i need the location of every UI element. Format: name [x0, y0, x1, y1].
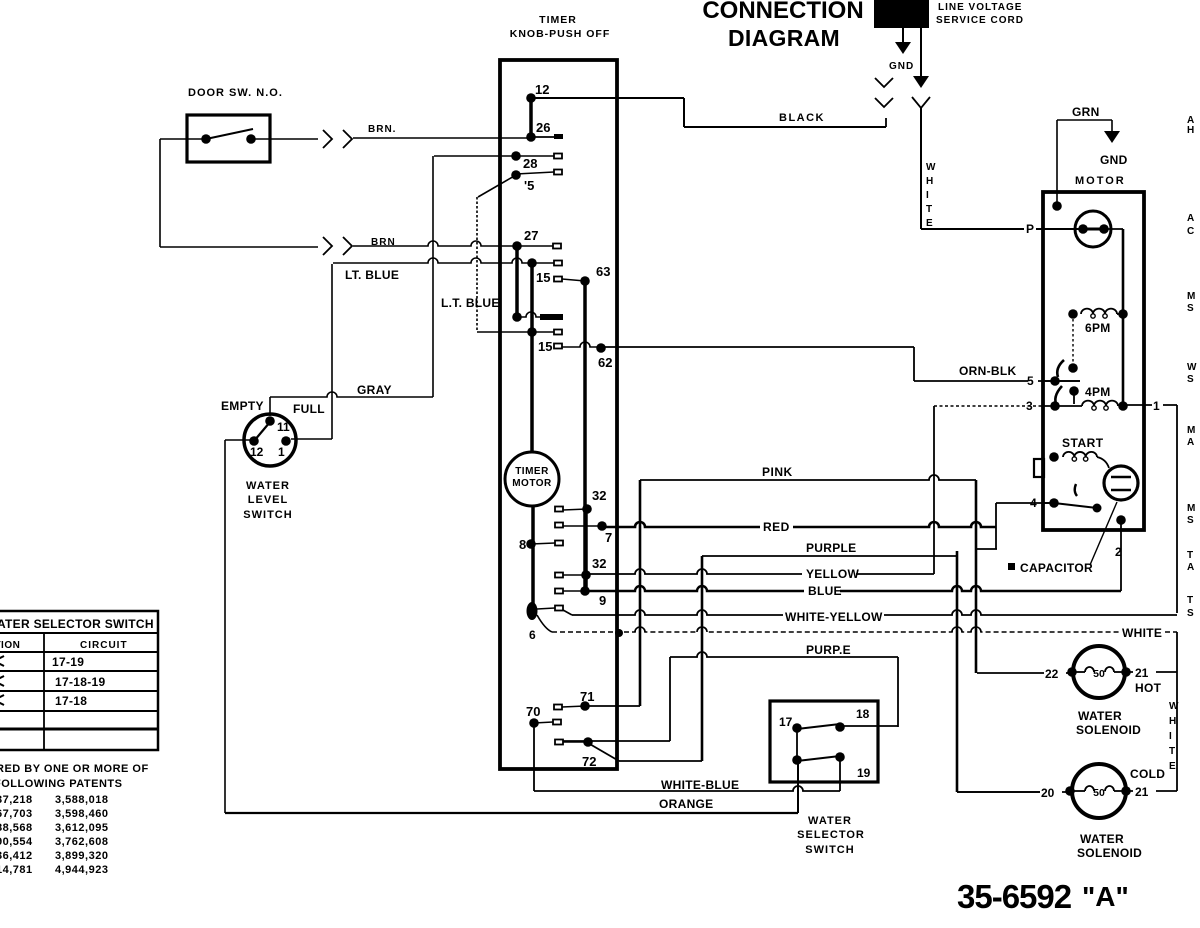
wire WHITE timer 6 to solenoids	[537, 615, 1177, 637]
selector pin 17	[779, 715, 802, 733]
wire PURPLE timer 72 to motor 3	[619, 551, 1041, 792]
svg-text:S: S	[1187, 608, 1194, 619]
label WATER SELECTOR SWITCH	[797, 815, 865, 856]
motor ground terminal	[1052, 201, 1062, 211]
label HOT	[1135, 681, 1162, 695]
timer wire 12-26	[529, 98, 533, 137]
table row3	[0, 694, 87, 708]
svg-text:4,944,923: 4,944,923	[55, 864, 108, 876]
wire WHITE service to motor	[921, 108, 1083, 229]
svg-text:M: M	[1187, 291, 1195, 302]
timer motor circle	[505, 452, 559, 506]
svg-text:H: H	[1169, 716, 1176, 727]
motor pin 2	[1115, 515, 1126, 559]
svg-text:SOLENOID: SOLENOID	[1077, 846, 1142, 860]
label P	[1026, 222, 1034, 236]
label GRAY	[357, 383, 392, 397]
svg-text:HOT: HOT	[1135, 681, 1162, 695]
motor run circle	[1075, 211, 1111, 247]
selector pin 18	[835, 707, 869, 732]
svg-text:37,218: 37,218	[0, 794, 33, 806]
connector chevrons BRN	[323, 130, 352, 148]
svg-text:90,554: 90,554	[0, 836, 33, 848]
selector arm 17-18	[797, 724, 840, 729]
timer pin 8	[519, 537, 563, 552]
label RED	[763, 520, 790, 534]
svg-text:18: 18	[856, 707, 870, 721]
svg-text:3,612,095: 3,612,095	[55, 822, 108, 834]
label WHITE-YELLOW	[785, 610, 883, 624]
svg-text:W: W	[1187, 362, 1197, 373]
svg-text:27: 27	[524, 228, 538, 243]
motor 6PM winding	[1068, 309, 1128, 335]
timer wire lt-blue down	[530, 263, 534, 332]
svg-text:21: 21	[1135, 666, 1149, 680]
timer pin 70	[526, 704, 561, 728]
timer wire 32a-9 column	[584, 509, 588, 592]
svg-text:14,781: 14,781	[0, 864, 33, 876]
svg-text:GRAY: GRAY	[357, 383, 392, 397]
svg-text:ORANGE: ORANGE	[659, 797, 713, 811]
svg-text:50: 50	[1093, 668, 1105, 680]
wire PINK timer 71 to motor 4	[585, 475, 1054, 706]
svg-text:CAPACITOR: CAPACITOR	[1020, 561, 1093, 575]
cord lead white with chevrons	[912, 28, 930, 108]
timer pin 7	[555, 521, 612, 545]
svg-text:26: 26	[536, 120, 550, 135]
timer pin 26	[526, 120, 563, 142]
label COLD	[1130, 767, 1165, 781]
table row2	[0, 675, 105, 689]
svg-text:H: H	[1187, 125, 1194, 136]
label BLUE	[808, 584, 842, 598]
svg-text:50: 50	[1093, 787, 1105, 799]
label ORANGE	[659, 797, 713, 811]
timer pin 32b	[555, 556, 606, 580]
svg-text:2: 2	[1115, 545, 1122, 559]
cord chevrons left	[875, 78, 893, 107]
selector wire 17-17b	[796, 728, 798, 760]
svg-text:MOTOR: MOTOR	[1075, 175, 1126, 187]
svg-text:BLACK: BLACK	[779, 112, 825, 124]
ground arrow GND	[895, 28, 911, 54]
svg-text:3,598,460: 3,598,460	[55, 808, 108, 820]
svg-text:EMPTY: EMPTY	[221, 399, 264, 413]
svg-text:11: 11	[277, 420, 290, 434]
timer pin mid 15	[512, 312, 563, 322]
hot solenoid circle	[1067, 646, 1131, 698]
svg-text:L.T. BLUE: L.T. BLUE	[441, 296, 500, 310]
svg-text:28: 28	[523, 156, 537, 171]
svg-text:15: 15	[536, 270, 550, 285]
timer pin 9	[555, 586, 606, 608]
wire GRAY water level to 28 leg	[270, 392, 433, 416]
drawing number 35-6592 A	[957, 878, 1129, 915]
timer box	[500, 60, 617, 769]
svg-text:72: 72	[582, 754, 596, 769]
svg-text:I: I	[1169, 731, 1172, 742]
capacitor label and leader	[1008, 502, 1117, 575]
svg-text:70: 70	[526, 704, 540, 719]
wire BRN2 door loop to timer 27	[160, 241, 515, 247]
svg-text:LT. BLUE: LT. BLUE	[345, 268, 399, 282]
motor pin 4	[1030, 496, 1059, 510]
svg-text:LINE VOLTAGE: LINE VOLTAGE	[938, 2, 1022, 13]
svg-text:15: 15	[538, 339, 552, 354]
label PURP.E 2	[806, 643, 851, 657]
label 11	[277, 420, 290, 434]
label cold WATER SOLENOID	[1077, 832, 1142, 860]
svg-text:5: 5	[1027, 374, 1034, 388]
label EMPTY	[221, 399, 264, 413]
timer pin row 332	[527, 327, 562, 337]
svg-text:DIAGRAM: DIAGRAM	[728, 25, 840, 51]
wire WHITE-BLUE timer 70 to selector 19	[534, 723, 840, 791]
label 12	[250, 445, 264, 459]
svg-text:3,588,018: 3,588,018	[55, 794, 108, 806]
svg-text:71: 71	[580, 689, 594, 704]
svg-text:YELLOW: YELLOW	[806, 567, 860, 581]
svg-text:SELECTOR: SELECTOR	[797, 829, 865, 841]
svg-text:12: 12	[535, 82, 549, 97]
selector wire 18 out	[840, 725, 898, 727]
svg-text:H: H	[926, 176, 933, 187]
svg-text:"A": "A"	[1082, 881, 1129, 912]
label LT. BLUE 1	[345, 268, 399, 282]
cold solenoid circle	[1065, 764, 1131, 818]
water selector switch box	[770, 701, 878, 782]
timer pin 72	[555, 737, 596, 769]
label BLACK	[779, 112, 825, 124]
wire 62 to motor 5 ORN-BLK	[601, 347, 1080, 381]
svg-text:WHITE-BLUE: WHITE-BLUE	[661, 778, 739, 792]
selector pin 17b	[792, 755, 802, 765]
svg-text:4: 4	[1030, 496, 1037, 510]
svg-text:SOLENOID: SOLENOID	[1076, 723, 1141, 737]
wire timer 28 left leg	[433, 156, 516, 397]
timer pin 71	[554, 689, 594, 711]
label WATER LEVEL SWITCH	[243, 480, 292, 521]
timer wire 15c to 62	[562, 342, 601, 347]
wire GRN motor ground	[1057, 120, 1120, 206]
svg-text:DOOR SW. N.O.: DOOR SW. N.O.	[188, 87, 283, 99]
right edge cut labels	[1187, 115, 1197, 619]
door switch DOOR SW. N.O. label	[188, 87, 283, 99]
svg-text:BRN: BRN	[371, 237, 396, 248]
label GND	[889, 61, 914, 72]
timer pin 6	[527, 602, 564, 642]
svg-text:88,568: 88,568	[0, 822, 33, 834]
svg-text:22: 22	[1045, 667, 1059, 681]
svg-text:32: 32	[592, 556, 606, 571]
svg-text:GND: GND	[889, 61, 914, 72]
svg-text:C: C	[1187, 226, 1194, 237]
wire RED timer 7 to motor 4	[602, 522, 996, 527]
wire LT BLUE timer 15 leg	[477, 175, 532, 332]
svg-text:17-18-19: 17-18-19	[55, 675, 105, 689]
svg-text:63: 63	[596, 264, 610, 279]
label WHITE-BLUE	[661, 778, 739, 792]
svg-text:M: M	[1187, 425, 1195, 436]
svg-text:CONNECTION: CONNECTION	[702, 0, 863, 24]
label FULL	[293, 402, 325, 416]
svg-text:35-6592: 35-6592	[957, 878, 1072, 915]
label WHITE vertical	[926, 162, 936, 229]
timer pin 32a	[555, 488, 606, 514]
svg-text:S: S	[1187, 303, 1194, 314]
svg-text:M: M	[1187, 503, 1195, 514]
svg-text:A: A	[1187, 213, 1194, 224]
table subheader	[0, 640, 128, 651]
wire door switch left loop	[160, 139, 206, 247]
svg-text:WATER: WATER	[808, 815, 852, 827]
svg-text:TIMER: TIMER	[515, 466, 549, 477]
svg-text:FULL: FULL	[293, 402, 325, 416]
water selector switch table grid	[0, 611, 158, 750]
label PINK	[762, 465, 793, 479]
label GND motor	[1100, 153, 1128, 167]
wire WHITE right column	[1176, 632, 1178, 791]
svg-text:19: 19	[857, 766, 871, 780]
label START	[1062, 436, 1104, 450]
svg-text:62: 62	[598, 355, 612, 370]
svg-text:32: 32	[592, 488, 606, 503]
motor start winding	[1049, 452, 1109, 468]
svg-text:COLD: COLD	[1130, 767, 1165, 781]
svg-text:1: 1	[278, 445, 285, 459]
water level switch circle	[244, 414, 296, 466]
timer pin 27	[512, 228, 561, 251]
svg-text:WHITE-YELLOW: WHITE-YELLOW	[785, 610, 883, 624]
svg-text:T: T	[1187, 595, 1193, 606]
selector arm 17b-19	[797, 756, 840, 761]
timer wire 27 down	[515, 246, 519, 317]
wire PURPLE 2 timer 72 to selector 18	[563, 652, 898, 741]
motor pin 1 wire	[1123, 399, 1177, 613]
svg-text:GRN: GRN	[1072, 105, 1100, 119]
svg-text:T: T	[926, 204, 932, 215]
svg-text:GND: GND	[1100, 153, 1128, 167]
label ORN-BLK	[959, 364, 1016, 378]
label MOTOR	[1075, 175, 1126, 187]
wire hot solenoid 21	[1126, 666, 1177, 680]
svg-text:T: T	[1187, 550, 1193, 561]
svg-text:S: S	[1187, 374, 1194, 385]
label YELLOW	[806, 567, 860, 581]
motor box	[1043, 192, 1144, 530]
timer wire motor column	[530, 332, 534, 452]
line voltage service cord plug	[874, 0, 929, 28]
label PURPLE	[806, 541, 856, 555]
svg-text:17-18: 17-18	[55, 694, 87, 708]
svg-text:1: 1	[1153, 399, 1160, 413]
timer pin 15 contact b	[536, 270, 585, 285]
svg-text:67,703: 67,703	[0, 808, 33, 820]
svg-text:MOTOR: MOTOR	[512, 478, 552, 489]
svg-text:SERVICE CORD: SERVICE CORD	[936, 15, 1024, 26]
wire BRN door switch to timer 26	[251, 138, 531, 139]
timer pin 15 contact c	[538, 339, 562, 354]
svg-text:START: START	[1062, 436, 1104, 450]
connector chevrons BRN2	[323, 237, 352, 255]
selector pin 19	[835, 752, 870, 780]
svg-text:'5: '5	[524, 178, 534, 193]
wire LT BLUE full to timer	[291, 258, 532, 439]
label GRN	[1072, 105, 1100, 119]
svg-text:20: 20	[1041, 786, 1055, 800]
svg-text:KNOB-PUSH OFF: KNOB-PUSH OFF	[510, 28, 611, 40]
motor centrifugal link	[1068, 314, 1078, 373]
wire BLACK timer 12 to cord	[531, 98, 886, 127]
wire cold solenoid 20	[957, 786, 1070, 800]
water level switch terminals	[249, 416, 291, 446]
motor pin 3	[934, 399, 1082, 413]
wire hot solenoid 22	[977, 667, 1071, 681]
svg-text:PURPLE: PURPLE	[806, 541, 856, 555]
svg-text:E: E	[1169, 761, 1176, 772]
wire cold solenoid 21	[1126, 785, 1177, 799]
svg-text:RED BY ONE OR MORE OF: RED BY ONE OR MORE OF	[0, 763, 149, 775]
water level switch arm	[254, 422, 270, 441]
table row1	[0, 655, 84, 669]
patents text block	[0, 763, 149, 876]
motor capacitor circle	[1104, 466, 1138, 500]
timer wire 63 down	[583, 281, 587, 592]
door switch box	[187, 115, 270, 162]
wire BLUE timer 9 to motor 2	[585, 520, 1121, 591]
svg-text:WATER: WATER	[246, 480, 290, 492]
motor centrifugal arcs	[1055, 360, 1064, 406]
label BRN 2	[371, 237, 396, 248]
svg-text:P: P	[1026, 222, 1034, 236]
svg-text:9: 9	[599, 593, 606, 608]
svg-text:17: 17	[779, 715, 793, 729]
label WHITE vertical right	[1169, 701, 1179, 772]
svg-text:6: 6	[529, 628, 536, 642]
timer label	[510, 14, 611, 40]
svg-text:8: 8	[519, 537, 526, 552]
label LINE VOLTAGE SERVICE CORD	[936, 2, 1024, 26]
svg-text:WHITE: WHITE	[1122, 626, 1162, 640]
svg-text:WATER: WATER	[1080, 832, 1124, 846]
label 1	[278, 445, 285, 459]
svg-text:BLUE: BLUE	[808, 584, 842, 598]
timer pin 63	[580, 264, 610, 286]
wire YELLOW timer 32 to purple junction	[586, 406, 934, 574]
svg-text:21: 21	[1135, 785, 1149, 799]
timer 72 arm	[588, 743, 619, 761]
timer wire motor to pin 6	[531, 506, 535, 610]
svg-text:SWITCH: SWITCH	[243, 509, 292, 521]
svg-text:PURP.E: PURP.E	[806, 643, 851, 657]
motor pin 5	[1027, 374, 1080, 388]
svg-text:3,762,608: 3,762,608	[55, 836, 108, 848]
label L.T. BLUE 2	[441, 296, 500, 310]
svg-text:3,899,320: 3,899,320	[55, 850, 108, 862]
label hot WATER SOLENOID	[1076, 709, 1141, 737]
svg-text:CIRCUIT: CIRCUIT	[80, 640, 128, 651]
svg-text:RED: RED	[763, 520, 790, 534]
svg-text:7: 7	[605, 530, 612, 545]
timer pin 62	[596, 343, 612, 370]
svg-text:SITION: SITION	[0, 640, 20, 651]
timer pin 12	[526, 82, 549, 103]
svg-text:17-19: 17-19	[52, 655, 84, 669]
svg-text:PINK: PINK	[762, 465, 793, 479]
title CONNECTION DIAGRAM	[702, 0, 863, 51]
motor wire circle to right column	[1104, 229, 1123, 406]
svg-text:BRN.: BRN.	[368, 124, 396, 135]
svg-text:4PM: 4PM	[1085, 385, 1111, 399]
svg-text:12: 12	[250, 445, 264, 459]
svg-text:WATER: WATER	[1078, 709, 1122, 723]
door switch arm	[206, 129, 253, 139]
svg-text:S: S	[1187, 515, 1194, 526]
motor 4PM winding	[1069, 385, 1128, 411]
svg-text:I: I	[926, 190, 929, 201]
svg-text:36,412: 36,412	[0, 850, 33, 862]
timer pin lt-blue row	[527, 258, 562, 268]
wire ORANGE water level to selector switch	[225, 440, 798, 813]
svg-text:E: E	[926, 218, 933, 229]
svg-text:WATER SELECTOR SWITCH: WATER SELECTOR SWITCH	[0, 617, 154, 631]
timer pin 28	[511, 151, 562, 171]
svg-text:LEVEL: LEVEL	[248, 494, 288, 506]
svg-text:W: W	[926, 162, 936, 173]
svg-text:6PM: 6PM	[1085, 321, 1111, 335]
svg-text:ORN-BLK: ORN-BLK	[959, 364, 1016, 378]
svg-text:FOLLOWING PATENTS: FOLLOWING PATENTS	[0, 778, 122, 790]
svg-text:T: T	[1169, 746, 1175, 757]
svg-text:W: W	[1169, 701, 1179, 712]
svg-text:SWITCH: SWITCH	[805, 844, 854, 856]
svg-text:A: A	[1187, 562, 1194, 573]
svg-text:A: A	[1187, 437, 1194, 448]
motor start arm	[1054, 484, 1102, 513]
door switch terminals	[201, 134, 256, 144]
label BRN.	[368, 124, 396, 135]
label WHITE	[1122, 626, 1162, 640]
svg-text:TIMER: TIMER	[539, 14, 577, 26]
timer pin 15a	[511, 170, 562, 194]
wire WHITE-YELLOW timer 6 stub to motor 1	[563, 610, 1177, 615]
table header	[0, 617, 154, 631]
motor start switch housing	[1034, 459, 1044, 477]
